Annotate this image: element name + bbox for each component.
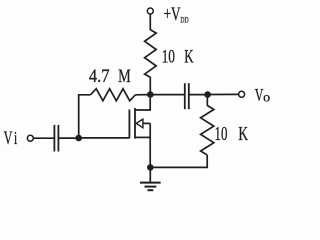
label 10 K (R3) [215, 124, 249, 145]
resistor R3 10 K [201, 105, 214, 155]
label Vo [255, 85, 271, 105]
resistor R2 4.7 M [91, 89, 136, 101]
svg-text:10: 10 [162, 47, 175, 67]
svg-text:o: o [263, 90, 270, 105]
node Vo junction [204, 91, 211, 98]
wire [206, 95, 208, 106]
wire [149, 14, 151, 30]
svg-text:M: M [118, 67, 131, 87]
capacitor C1 [54, 125, 58, 152]
label Vi [4, 128, 18, 149]
wire gate lead [79, 137, 130, 139]
terminal +VDD [147, 8, 153, 14]
wire [135, 94, 150, 96]
wire [79, 95, 91, 138]
label +VDD [164, 5, 189, 25]
node drain junction [147, 91, 154, 98]
svg-text:K: K [238, 124, 248, 145]
node source junction [147, 164, 154, 171]
terminal Vi [27, 135, 33, 141]
terminal Vo [239, 91, 245, 97]
label 4.7 M (R2) [89, 67, 131, 87]
svg-text:+V: +V [164, 5, 181, 25]
resistor R1 10 K [145, 30, 157, 77]
svg-text:V: V [255, 85, 264, 105]
ground [140, 183, 161, 191]
wire source to ground [149, 167, 151, 182]
node gate junction [75, 135, 82, 142]
svg-text:K: K [184, 47, 194, 67]
capacitor C2 [185, 83, 189, 109]
wire drain node to C2 [150, 94, 185, 96]
wire [58, 137, 78, 139]
wire [150, 155, 207, 167]
svg-text:DD: DD [180, 15, 188, 25]
wire [33, 137, 54, 139]
wire [189, 94, 208, 96]
svg-text:i: i [14, 128, 17, 148]
transistor Q1 MOSFET [129, 98, 150, 167]
wire [149, 77, 151, 95]
label 10 K (R1) [162, 47, 195, 67]
wire to Vo terminal [208, 93, 239, 95]
svg-text:V: V [4, 128, 13, 149]
svg-text:4.7: 4.7 [89, 67, 110, 87]
svg-text:10: 10 [215, 124, 228, 145]
